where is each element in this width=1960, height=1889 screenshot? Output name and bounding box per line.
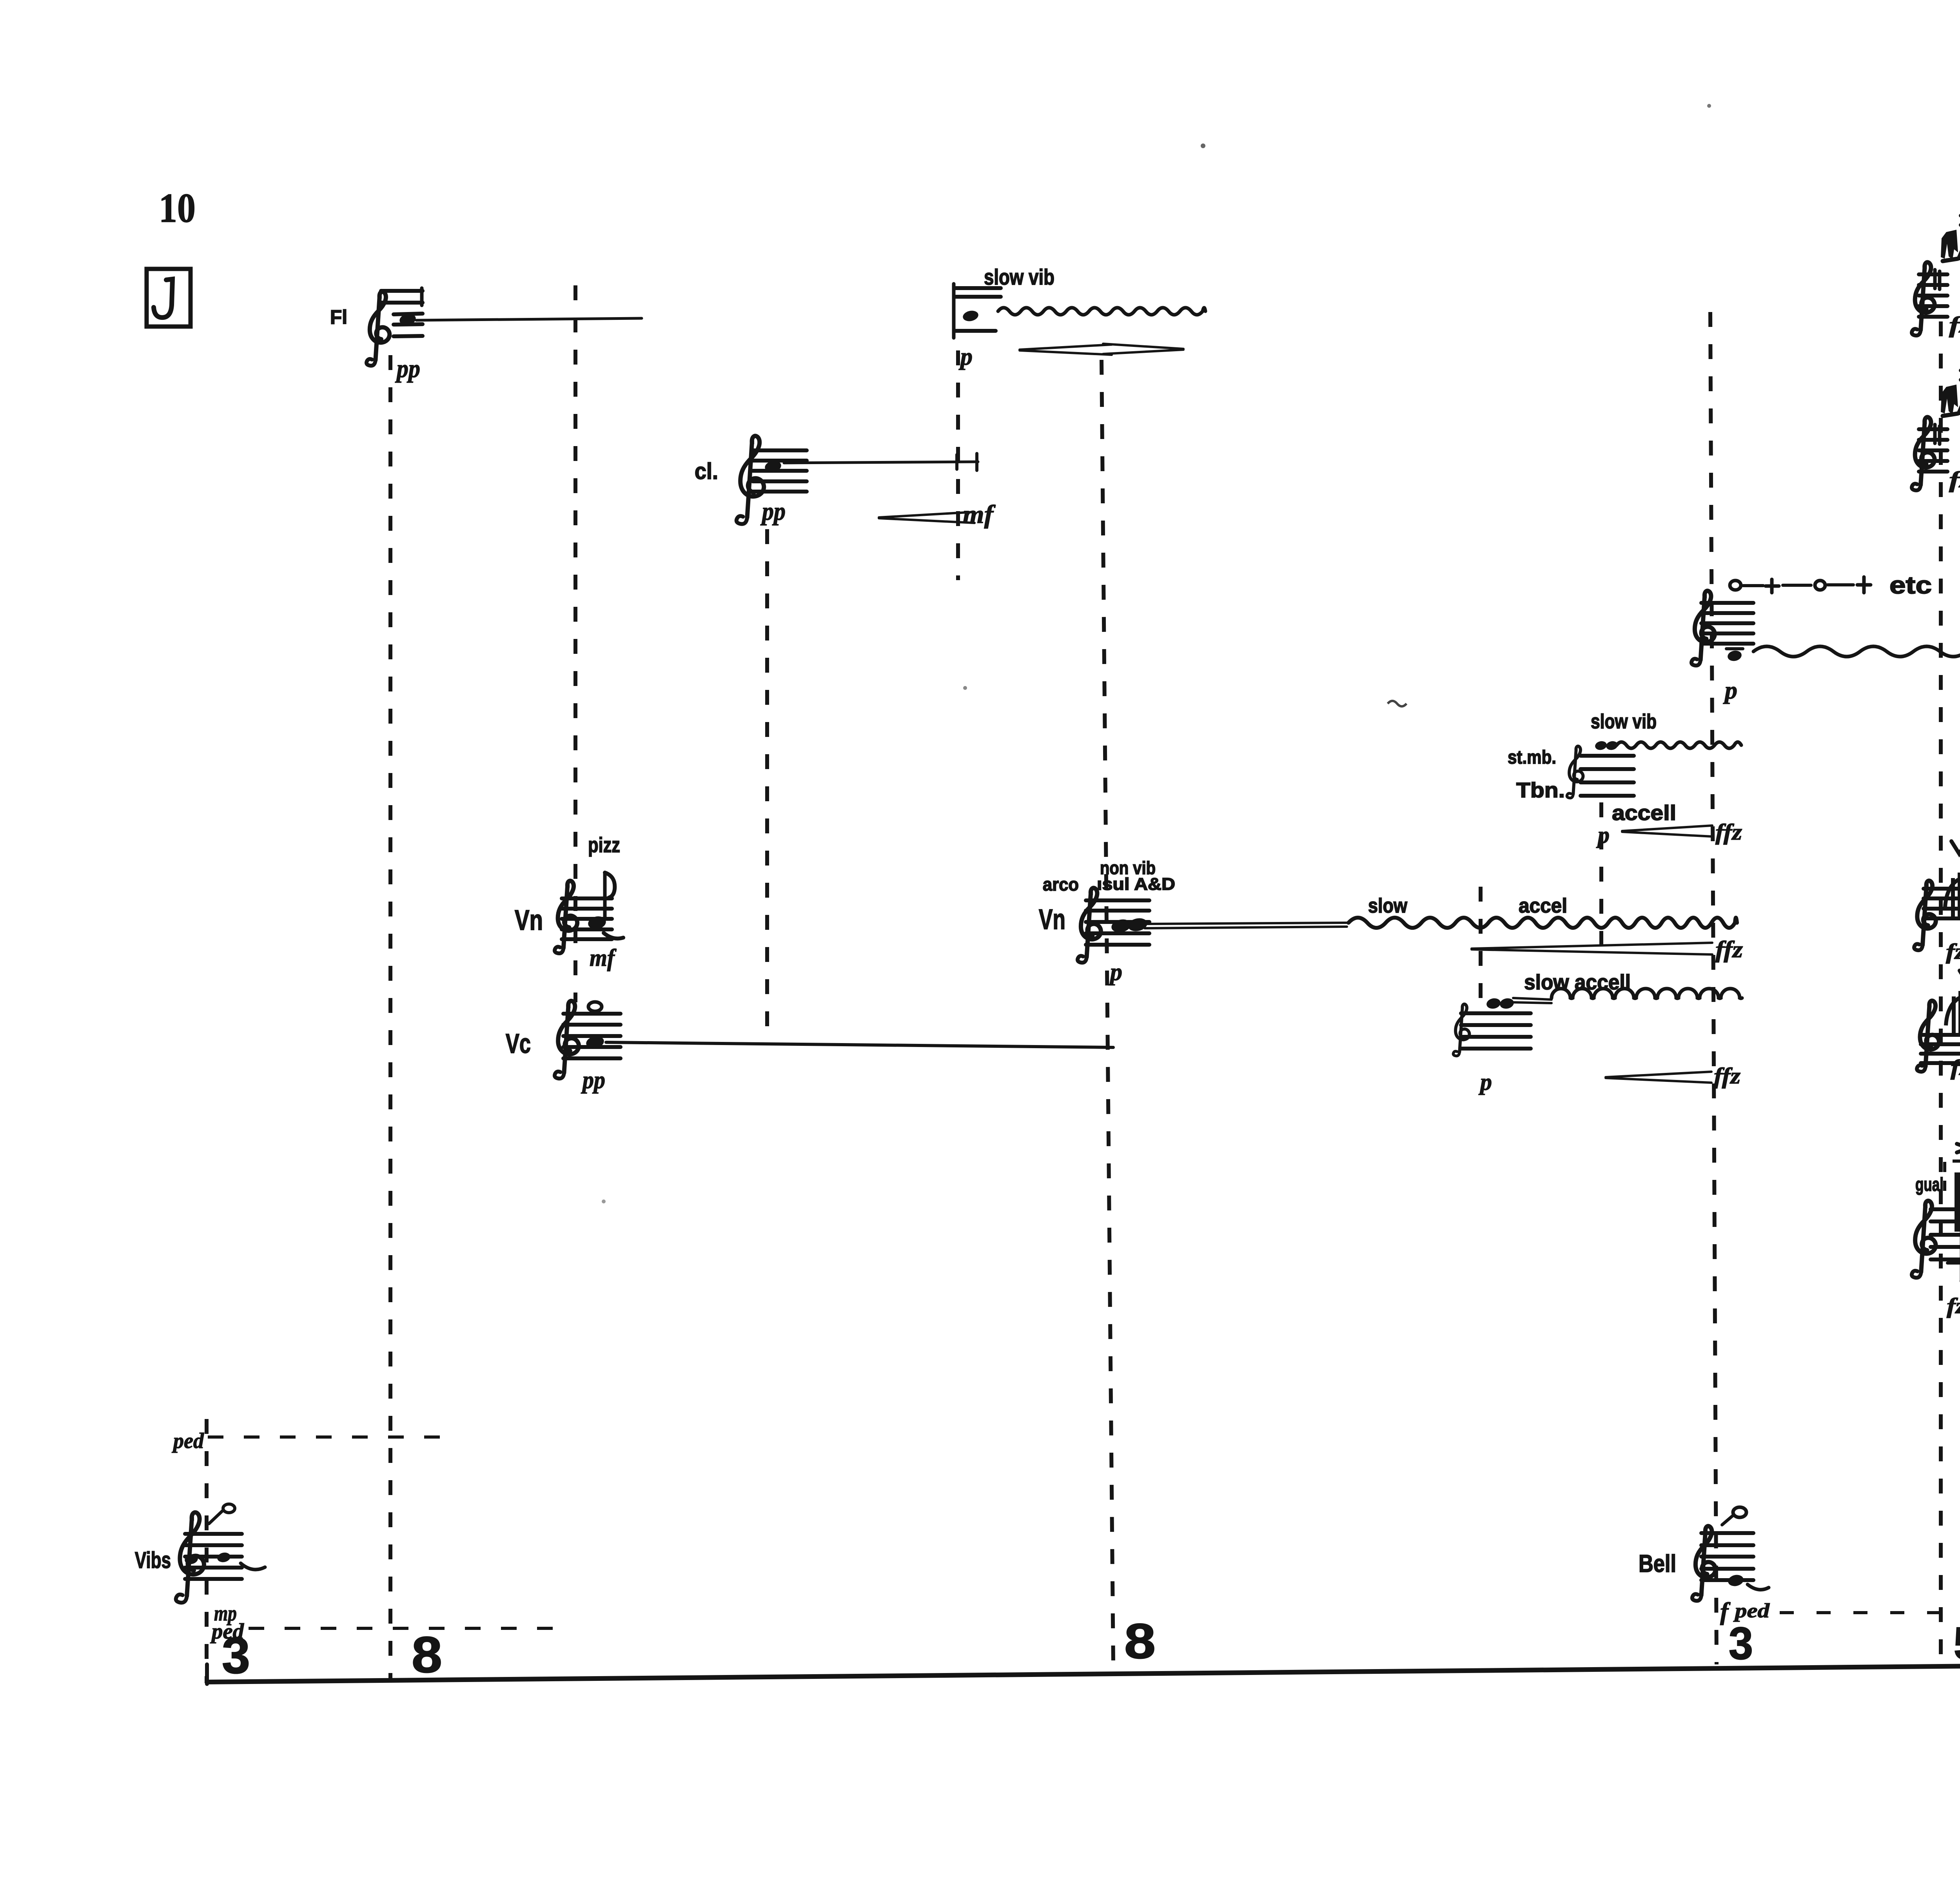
Bell half note stem [1722,1515,1733,1525]
etc ledger line [1726,647,1743,650]
etc note head [1727,650,1743,662]
Vn arco double line upper [1145,923,1347,924]
slowvib wavy line [998,308,1205,315]
svg-text:accel: accel [1519,895,1567,917]
paper speck 3 [963,686,967,690]
fz-row1 arrow 1 [1956,234,1960,260]
Vn arco staff lines [1086,898,1149,902]
Fl staff lines [381,289,423,293]
fz-row1 scribble beam [1943,259,1958,261]
fz-row2 scribble [1941,385,1958,414]
barline 1 [388,355,392,1679]
cl sustained-note line [784,462,978,463]
svg-text:ped: ped [172,1429,204,1453]
Bell half note [1733,1507,1746,1517]
dash o-+ 2 [1783,584,1811,587]
svg-text:10: 10 [159,185,196,231]
rehearsal letter J [154,279,172,318]
piano accent 1 [1957,1144,1960,1152]
svg-text:mf: mf [963,500,996,529]
svg-text:8: 8 [1124,1613,1156,1669]
svg-text:slow: slow [1368,895,1407,917]
paper speck 2 [1707,104,1711,108]
svg-text:8: 8 [412,1626,442,1683]
etc long wavy line [1753,646,1960,657]
slowvib note head [962,309,980,323]
mute + 2 [1862,577,1866,593]
timeline left tick [205,1664,209,1684]
Vc2 treble clef [1453,1004,1469,1056]
cl note head [764,459,782,474]
Vibs harmonic circle [223,1504,235,1513]
barline 8 [1710,312,1717,1664]
svg-text:gual: gual [1915,1174,1944,1195]
fz-row1 lattice ticks [1933,270,1937,289]
svg-text:Bell: Bell [1639,1550,1676,1577]
barline 3 [765,529,769,1035]
svg-text:p: p [1478,1069,1492,1095]
piano staff lines [1931,1207,1960,1211]
svg-text:p: p [958,343,973,370]
svg-text:ffz: ffz [1715,819,1742,845]
ped upper dashed line [208,1435,443,1439]
comb-row2 vee 1 [1960,971,1960,983]
Vc note head [585,1035,605,1050]
paper speck 1 [1201,143,1205,148]
Vc2 short double line [1513,998,1552,1000]
ped lower dashed line [249,1627,557,1630]
svg-text:fz: fz [1947,1294,1960,1318]
piano cluster 1 [1955,1172,1960,1232]
slowvib left barline [952,284,956,338]
Bell staff lines [1701,1531,1753,1535]
svg-text:5: 5 [1954,1618,1960,1669]
svg-text:slow vib: slow vib [1591,710,1657,733]
Vibs tie [241,1563,265,1570]
Vc harmonic circle [588,1002,602,1011]
comb-row1 vee 1 [1951,841,1960,854]
fz-row2 lattice ticks [1933,425,1937,443]
comb-row1 staff lines [1924,887,1960,891]
barline 5 [1102,360,1113,1665]
Vc staff lines [563,1012,621,1016]
svg-text:mf: mf [590,945,617,971]
svg-text:Vn: Vn [515,905,543,936]
svg-text:fz: fz [1951,1056,1960,1080]
Tbn note heads [1594,740,1608,751]
mute + 1 [1770,579,1774,593]
slowvib swell dim [1103,344,1183,354]
mute o 1 [1730,581,1741,590]
Vn pizz stem [603,873,607,919]
Vc treble clef [555,1001,579,1078]
svg-text:p: p [1723,676,1737,704]
svg-text:fz: fz [1946,940,1960,964]
svg-text:Vn: Vn [1039,904,1065,935]
svg-text:pp: pp [395,354,420,383]
comb-row2 treble clef [1917,1001,1939,1072]
Vn pizz treble clef [555,881,577,953]
cl staff lines [753,448,807,452]
svg-text:Tbn.: Tbn. [1516,778,1565,802]
Vc2 crescendo hairpin [1606,1072,1711,1083]
cl crescendo hairpin [879,512,975,523]
Vc2 staff lines [1461,1011,1531,1015]
Vibs staff lines [185,1532,242,1536]
cl line tick 2 [975,454,978,470]
barline 6 [1479,887,1483,1003]
Bell note head [1727,1573,1745,1588]
dash o-+ 3 [1828,583,1853,586]
fz-row1 scribble [1941,230,1958,259]
Vc2 accel wavy [1552,989,1742,998]
etc staff lines [1701,601,1753,605]
svg-text:Vibs: Vibs [135,1548,171,1573]
comb-row1 treble clef [1914,881,1936,950]
timeline [207,1663,1960,1682]
svg-text:etc: etc [1889,572,1932,599]
svg-text:pp: pp [760,497,786,526]
Vibs note head 2 [216,1551,231,1564]
Vn pizz under-curve [604,933,623,938]
Vn pizz note head [587,915,607,931]
Tbn crescendo hairpin [1622,826,1712,837]
barline 7 [1599,802,1603,953]
svg-text:p: p [1596,822,1610,848]
svg-text:p: p [1108,959,1122,985]
Bell ped dashed line [1780,1611,1960,1614]
dash o-+ 1 [1743,584,1763,587]
Vibs harmonic stem [209,1510,223,1524]
barline 0 (vibs) [205,1419,209,1683]
svg-text:fz: fz [1949,467,1960,492]
Vc sustained-note line [606,1042,1113,1047]
svg-text:ffz: ffz [1714,1063,1740,1089]
piano cluster1 ledger [1947,1261,1960,1265]
svg-text:fz: fz [1949,312,1960,338]
Vc2 note heads [1486,997,1502,1010]
rehearsal mark J box [147,269,191,327]
fz-row1 staff lines [1919,272,1947,276]
Vibs treble clef [176,1512,204,1602]
fz-row1 treble clef [1912,262,1935,336]
svg-text:pp: pp [581,1066,605,1094]
svg-text:3: 3 [222,1627,250,1684]
etc staff treble clef [1691,591,1715,666]
Vn arco treble clef [1078,888,1101,963]
fz-row2 scribble beam [1943,414,1958,416]
svg-text:accell: accell [1612,801,1676,825]
barline 2 [573,285,577,1002]
svg-text:3: 3 [1729,1618,1753,1669]
piano dashed box [1945,1161,1960,1192]
Bell tie [1748,1584,1769,1590]
piano treble clef [1912,1201,1936,1277]
Vn pizz staff lines [562,896,612,900]
svg-text:Fl: Fl [330,306,347,328]
svg-text:Vc: Vc [506,1028,531,1059]
Vn arco double line lower [1145,927,1347,928]
svg-text:pizz: pizz [588,833,620,857]
fz-row2 arrow 1 [1956,388,1960,415]
Fl note head [399,312,417,327]
Vn crescendo hairpin [1472,943,1712,954]
barline 9 [1939,321,1943,1665]
paper speck 4 [602,1199,606,1203]
cl line tick 1 [955,455,958,469]
Tbn treble clef [1567,746,1583,798]
svg-text:arco: arco [1043,874,1079,895]
fz-row2 staff lines [1919,427,1947,431]
comb-row1 cluster 1 [1951,878,1955,916]
comb-row2 staff lines [1921,1033,1960,1037]
Fl treble clef [367,292,390,366]
svg-text:cl.: cl. [695,459,718,484]
barline 4 [956,350,960,580]
svg-text:ısul A&D: ısul A&D [1097,875,1175,894]
slowvib staff lines [955,286,1001,290]
svg-text:slow vib: slow vib [984,265,1054,289]
Vibs note head 1 [184,1553,199,1566]
svg-text:ffz: ffz [1715,936,1743,962]
Vn pizz flag [605,873,615,898]
Vn arco accel wavy [1348,918,1737,928]
Vn arco note heads [1110,918,1132,934]
fz-row2 treble clef [1912,417,1935,490]
Bell treble clef [1692,1526,1715,1601]
slowvib swell cresc [1020,345,1112,355]
cl treble clef [737,436,764,524]
mute o 2 [1815,581,1825,590]
svg-text:st.mb.: st.mb. [1508,747,1556,768]
Tbn staff lines [1581,754,1634,758]
Tbn wavy line [1617,742,1741,748]
paper tilde mark [1388,701,1406,706]
Fl sustained-note line [416,318,642,320]
comb-row2 cluster 1 [1952,996,1956,1035]
